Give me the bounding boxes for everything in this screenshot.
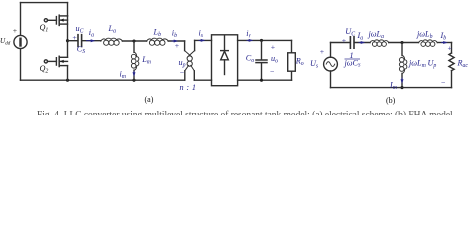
current arrow ir (247, 39, 254, 42)
wire node to Cs (68, 40, 78, 42)
wire transformer primary top lead (184, 41, 186, 51)
svg-text:Q1: Q1 (40, 23, 49, 34)
current arrow ib (172, 40, 179, 43)
source Udd arrow (19, 39, 21, 46)
rectifier block (212, 35, 238, 86)
svg-text:im: im (120, 70, 126, 81)
wire (b) top rail (331, 42, 351, 44)
svg-text:−: − (180, 68, 185, 77)
wire Lm lower lead (b) (401, 73, 403, 87)
current arrow is (199, 39, 206, 42)
transistor Q2 (44, 56, 67, 66)
svg-text:jωLm: jωLm (408, 59, 426, 70)
wire Lm lower lead (133, 70, 135, 80)
junction Lm tap (b) (400, 41, 403, 44)
junction Q2-source / bottom rail (66, 79, 69, 82)
wire half-bridge rail mid (67, 16, 69, 57)
inductor La (101, 38, 123, 45)
wire transformer secondary top lead (194, 40, 196, 50)
svg-text:is: is (199, 29, 204, 40)
wire Q2 source lead (67, 66, 69, 81)
svg-text:ir: ir (246, 29, 251, 40)
svg-text:Co: Co (246, 54, 254, 65)
svg-text:−: − (270, 68, 275, 77)
wire Rac lower lead (451, 71, 453, 88)
svg-text:uC: uC (76, 24, 84, 35)
svg-text:+: + (448, 44, 453, 53)
svg-text:(b): (b) (386, 96, 396, 105)
capacitor Cs (b) (350, 37, 354, 48)
wire left rail lower (20, 49, 22, 81)
source Us lower lead (330, 71, 332, 88)
resistor Ro (288, 53, 296, 71)
svg-text:n : 1: n : 1 (180, 83, 197, 92)
svg-text:+: + (175, 41, 180, 50)
svg-text:−: − (441, 78, 446, 87)
wire cap to La (b) (354, 42, 370, 44)
capacitor Co (256, 60, 267, 63)
current arrow Ia (b) (359, 41, 366, 44)
resistor Rac zigzag (449, 53, 454, 71)
wire Rac upper lead (451, 43, 453, 54)
label 1/jwCS fraction (344, 51, 362, 69)
svg-text:La: La (108, 24, 117, 35)
svg-text:CS: CS (77, 44, 85, 55)
svg-text:UC: UC (345, 27, 355, 38)
wire Ro lower lead (291, 71, 293, 80)
svg-text:Ia: Ia (357, 31, 364, 42)
wire Lb to transformer (168, 40, 184, 42)
source Us circle (324, 57, 338, 71)
wire secondary bottom to rectifier (194, 79, 211, 81)
svg-text:Q2: Q2 (40, 64, 49, 75)
wire Co upper lead (261, 40, 263, 59)
svg-text:Us: Us (310, 59, 319, 70)
inductor Lb (147, 38, 169, 45)
wire Co lower lead (261, 63, 263, 80)
svg-text:Udd: Udd (0, 37, 11, 46)
svg-text:ia: ia (89, 28, 94, 39)
wire bottom rail (a) (21, 79, 185, 81)
svg-text:Ro: Ro (295, 56, 304, 67)
svg-text:Lm: Lm (141, 55, 151, 65)
wire transformer primary bottom lead (184, 71, 186, 80)
inductor Lm (131, 52, 138, 70)
svg-text:+: + (72, 33, 77, 42)
wire Lb to Rac corner (437, 42, 451, 44)
svg-text:ib: ib (172, 28, 177, 39)
svg-text:Ib: Ib (440, 31, 447, 42)
wire Cs to La (82, 40, 101, 42)
svg-text:jωLb: jωLb (416, 30, 433, 41)
svg-text:Lb: Lb (153, 28, 162, 39)
source Udd circle (14, 35, 27, 48)
svg-text:+: + (342, 36, 347, 45)
current arrow im (133, 71, 136, 77)
svg-text:(a): (a) (145, 95, 154, 104)
wire Lm upper lead (133, 41, 135, 52)
transistor Q1 (44, 15, 67, 25)
capacitor CS (78, 35, 82, 47)
wire (b) bottom rail (331, 87, 452, 89)
current arrow Im (b) (401, 78, 404, 84)
svg-text:+: + (271, 43, 276, 52)
wire La to Lb (122, 40, 146, 42)
wire secondary top to rectifier (195, 39, 212, 41)
wire rectifier out bottom (238, 79, 292, 81)
current arrow Ib (b) (441, 41, 448, 44)
junction midpoint node (66, 39, 69, 42)
svg-text:Up: Up (428, 59, 437, 70)
junction Lm tap (132, 39, 135, 42)
source Us sine (326, 62, 335, 67)
svg-text:+: + (13, 26, 18, 35)
svg-text:Im: Im (389, 81, 397, 92)
svg-text:+: + (320, 47, 325, 56)
transformer T1 windings (185, 51, 195, 71)
inductor jwLb (419, 40, 438, 47)
junction Co bottom (260, 79, 263, 82)
wire Ro upper lead (291, 40, 293, 52)
inductor jwLa (370, 40, 389, 47)
svg-text:jωCS: jωCS (344, 59, 362, 69)
svg-text:jωLa: jωLa (368, 30, 385, 41)
wire rectifier out top (238, 39, 292, 41)
junction Lm / bottom rail (b) (400, 86, 403, 89)
wire Lm upper lead (b) (401, 43, 403, 56)
svg-text:uo: uo (271, 54, 278, 65)
svg-text:Fig. 4. LLC converter using mu: Fig. 4. LLC converter using multilevel s… (37, 109, 455, 115)
junction Lm / bottom rail (132, 79, 135, 82)
wire Q1 drain lead (67, 3, 69, 16)
wire top rail (a) (21, 2, 68, 4)
current arrow ia (86, 39, 95, 42)
wire transformer secondary bottom lead (193, 71, 195, 80)
source Us upper lead (330, 43, 332, 58)
inductor jwLm (399, 56, 406, 74)
wire left rail upper (20, 3, 22, 36)
wire La to Lb (b) (389, 42, 419, 44)
junction Co top (260, 39, 263, 42)
svg-text:Rac: Rac (457, 59, 469, 70)
diode D1 (221, 36, 229, 74)
